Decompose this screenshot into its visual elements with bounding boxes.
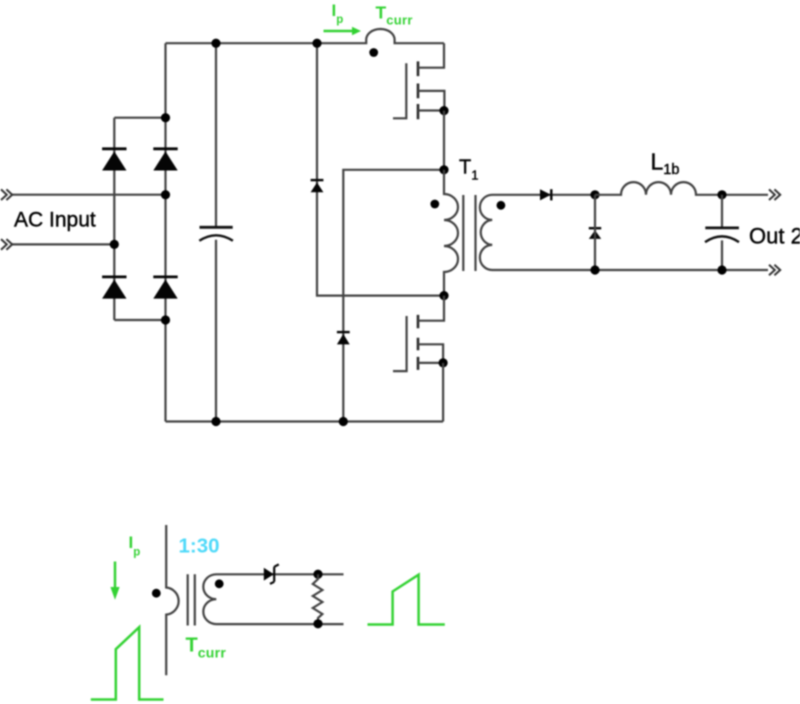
node bridge top junction [161,113,170,122]
wire AC input bottom line [12,243,114,245]
node Q1 source junction [439,106,448,115]
svg-text:Out 2: Out 2 [749,224,800,249]
node CT primary phase dot [152,589,161,598]
transistor Q1 upper MOSFET gate [393,63,406,118]
node Tcurr primary phase dot [369,48,378,57]
node freewheel bottom junction [590,265,599,274]
terminal AC input bottom chevrons [1,239,12,250]
node bottom rail capacitor junction [211,417,220,426]
node top rail capacitor junction [211,39,220,48]
diode D5 clamp upper [311,180,324,192]
node T1 primary top junction [439,165,448,174]
transformer T1 primary winding [444,170,458,296]
wire capacitor C1 branch [215,43,217,421]
transistor Q2 lower MOSFET gate [393,316,407,371]
node T1 primary bottom junction [439,291,448,300]
node AC top junction [161,190,170,199]
capacitor C2 output branch wire [721,195,723,270]
wire freewheel branch [594,195,596,270]
wire clamp branch D6 (T1 top node to bottom rail) [343,170,444,422]
transistor Q2 body stub [418,344,443,362]
diode D2 bridge right-top [153,149,177,171]
node bottom rail clamp junction [339,417,348,426]
transistor Q1 channel dashes [417,61,420,119]
wire CT primary with bump [166,525,178,675]
node bridge bottom junction [161,315,170,324]
node AC bottom junction [110,240,119,249]
wire bridge top [114,117,165,119]
arrow Ip direction (main) [324,27,362,35]
node output top junction [717,190,726,199]
transistor Q2 drain lead [418,296,444,321]
node CT secondary phase dot [215,579,224,588]
diode D4 bridge right-bottom [153,277,177,299]
svg-text:AC Input: AC Input [14,209,96,232]
terminal AC input top chevrons [1,189,12,200]
node rectifier output junction [590,190,599,199]
diode D7 output rectifier [540,189,551,200]
node T1 secondary phase dot [497,201,506,210]
node T1 primary phase dot [430,200,439,209]
wire bridge bottom [114,319,165,321]
transformer T1 secondary winding with leads [480,195,768,270]
wire left vertical (bridge right branch, top rail to bottom rail) [164,43,166,421]
wire top rail with current-transformer primary bump [166,29,445,43]
terminal Out2 top chevrons [769,189,780,200]
svg-text:1:30: 1:30 [179,535,220,558]
wire AC input top line [12,194,166,196]
diode D6 clamp lower [337,332,350,344]
inductor L1b [595,182,768,195]
capacitor C2 output [705,228,739,242]
diode D3 bridge left-bottom [102,277,126,299]
wire Q2 source to bottom rail [442,363,444,422]
node top rail clamp junction [312,39,321,48]
transformer T1 core [463,195,475,271]
transformer Tcurr secondary winding with leads [203,574,343,624]
node burden resistor bottom junction [313,619,322,628]
wire clamp branch D5 (top rail to T1 bottom node) [317,43,444,295]
diode D9 schottky [264,564,279,584]
transistor Q2 source stub [418,362,443,364]
waveform secondary current (green, right) [368,575,445,625]
transistor Q1 drain lead [418,43,444,67]
diode D1 bridge left-top [102,149,126,171]
wire Q1 source to T1 primary top [443,111,445,170]
transformer Tcurr core [188,574,195,625]
wire bottom rail [166,420,444,422]
arrow Ip direction (sub-circuit) [110,562,119,600]
wire bridge left branch [113,118,115,320]
transistor Q2 channel dashes [417,315,420,370]
diode D8 freewheel [589,228,601,239]
resistor R1 burden [313,574,323,624]
node burden resistor top junction [313,570,322,579]
transistor Q1 body stub [418,91,444,110]
capacitor C1 bulk filter [199,227,233,241]
transistor Q1 source stub [418,109,444,111]
terminal Out2 bottom chevrons [769,265,780,276]
node output bottom junction [717,265,726,274]
waveform primary current (green, lower left) [91,627,164,699]
node Q2 source junction [439,358,448,367]
